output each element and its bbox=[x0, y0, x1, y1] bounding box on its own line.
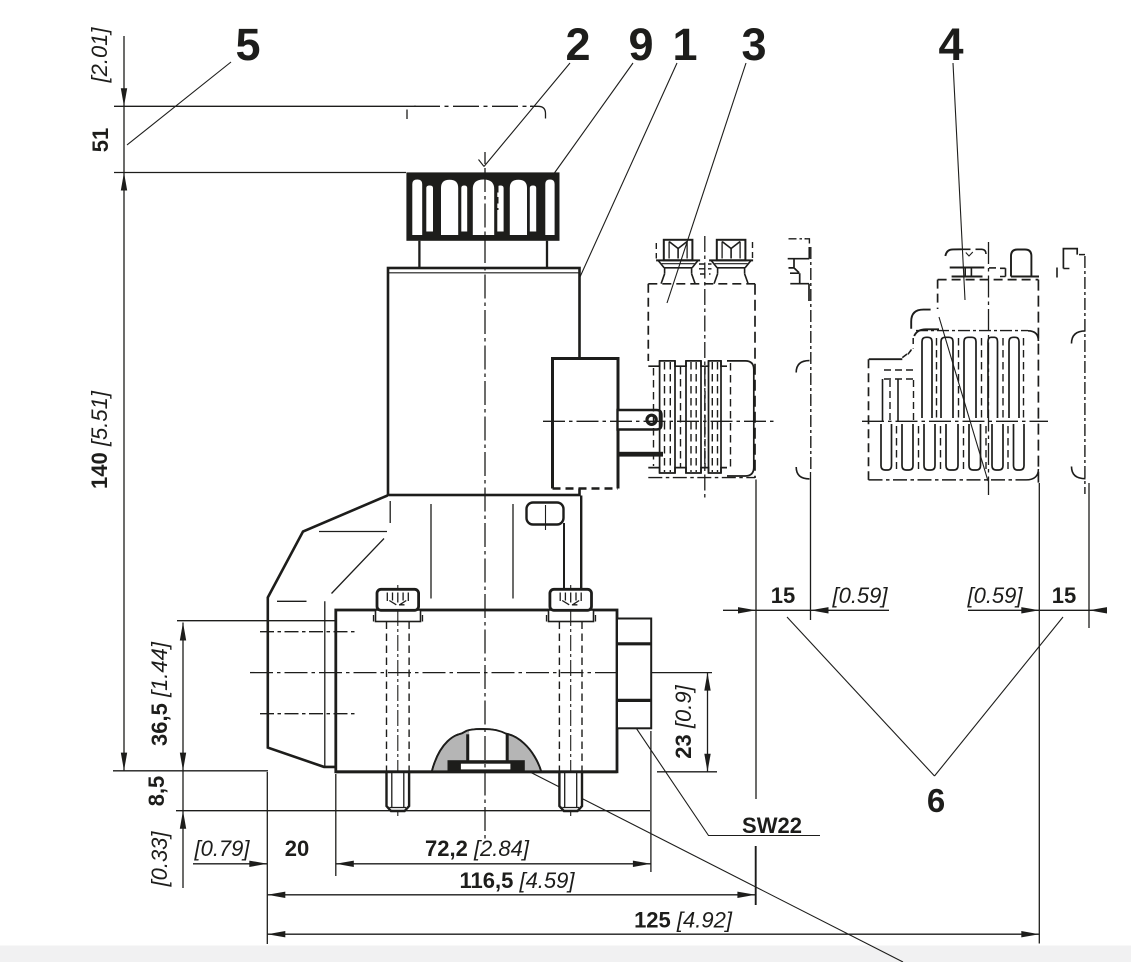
leader 6 right bbox=[935, 617, 1064, 776]
svg-text:[2.01]: [2.01] bbox=[87, 27, 112, 84]
knob white arch slots bbox=[412, 180, 554, 236]
leader 6 left bbox=[787, 617, 935, 776]
item4 left edge dashed bbox=[868, 359, 870, 480]
svg-text:2: 2 bbox=[565, 19, 590, 70]
yoke short edge bbox=[389, 501, 391, 523]
dome black band bbox=[448, 760, 525, 771]
arrow 51 top bbox=[121, 88, 127, 106]
svg-text:3: 3 bbox=[741, 19, 766, 70]
leader 3 bbox=[667, 63, 746, 303]
manual override dome (grey) bbox=[432, 729, 541, 771]
arrow 125 right bbox=[1021, 931, 1039, 937]
pin hole ring bbox=[647, 415, 656, 424]
dome white slot bbox=[469, 730, 506, 760]
knob neck bbox=[419, 241, 547, 268]
dim line right pair bbox=[968, 609, 1103, 611]
clamp tab on leg bbox=[527, 503, 564, 525]
dome band white notch bbox=[461, 764, 511, 770]
item4 body right edge dash bbox=[1037, 280, 1039, 484]
svg-text:116,5 [4.59]: 116,5 [4.59] bbox=[460, 868, 576, 893]
extension line top of stroke (y=106) bbox=[114, 105, 416, 107]
bolt hidden shaft bbox=[387, 622, 410, 772]
leader from manual override to bottom right bbox=[529, 772, 903, 962]
extension line base plane (y=810.7) bbox=[176, 810, 650, 812]
item4 bottom dash-dot bbox=[869, 479, 1027, 481]
item3 body top dashed bbox=[648, 283, 755, 285]
item3 hidden dashes between screws bbox=[699, 264, 712, 274]
item3 gland rib top profile bbox=[648, 361, 727, 366]
phantom tick bbox=[406, 110, 408, 120]
svg-text:140 [5.51]: 140 [5.51] bbox=[87, 390, 112, 489]
svg-text:23 [0.9]: 23 [0.9] bbox=[671, 684, 696, 758]
item4 body top dashed bbox=[938, 279, 1039, 281]
frag arc bottom bbox=[1072, 467, 1086, 479]
item4 hood corner upper bbox=[911, 310, 930, 329]
arrow 116.5 left bbox=[267, 892, 285, 898]
arrow 72.2 right bbox=[633, 861, 651, 867]
extension line body bottom (y=770.8) bbox=[113, 770, 268, 772]
knob hidden dashes bbox=[469, 186, 497, 210]
dim line 116.5 bbox=[267, 894, 755, 896]
item4 upper fins bbox=[922, 337, 932, 418]
knurled knob item 2 bbox=[406, 172, 559, 267]
port axis lower bbox=[260, 713, 355, 715]
aux corner dash bbox=[805, 239, 810, 244]
yoke inner line y=531.5 bbox=[319, 531, 387, 533]
svg-text:72,2 [2.84]: 72,2 [2.84] bbox=[425, 836, 530, 861]
arrow 140 bottom bbox=[121, 753, 127, 771]
item3 rib hidden dashed verticals bbox=[654, 362, 731, 472]
item4 screw hidden dashes mid bbox=[989, 267, 996, 269]
item4 fin corner right bbox=[1028, 331, 1038, 341]
svg-text:[0.59]: [0.59] bbox=[966, 583, 1023, 608]
item3 body left edge dashed bbox=[647, 284, 649, 361]
item4 body left edge dash bbox=[937, 280, 939, 309]
phantom stroke line dash-dot bbox=[414, 105, 532, 107]
valve body bbox=[336, 610, 617, 772]
item3 rib verticals bbox=[660, 361, 721, 473]
arrow 0.33 up bbox=[180, 811, 186, 829]
item3 horizontal centerline bbox=[543, 420, 778, 422]
leader 2 bbox=[479, 63, 571, 167]
item4 cable entry dashed box bbox=[884, 369, 915, 371]
item4 lower fin hidden dashes bbox=[897, 426, 1009, 469]
bolt flange bbox=[376, 610, 421, 622]
svg-text:51: 51 bbox=[88, 128, 113, 152]
extension line x=335.8 bbox=[335, 774, 337, 876]
bolt thread end bbox=[387, 772, 410, 811]
right mounting bolt bbox=[547, 585, 596, 816]
item4 upper fin hidden dashes bbox=[937, 338, 1024, 418]
svg-text:SW22: SW22 bbox=[742, 813, 802, 838]
svg-text:15: 15 bbox=[771, 583, 795, 608]
arrow 36.5 bottom bbox=[180, 753, 186, 771]
aux centerline vertical bbox=[810, 247, 812, 470]
svg-text:9: 9 bbox=[628, 19, 653, 70]
arrow 51 bottom / 140 top bbox=[121, 173, 127, 191]
dim line 125 bbox=[267, 933, 1039, 935]
svg-text:[0.33]: [0.33] bbox=[147, 831, 172, 888]
item3 centerline vertical bbox=[704, 236, 706, 500]
port axis upper bbox=[260, 631, 355, 633]
arrow 15L right bbox=[811, 607, 829, 613]
yoke inner diagonal bbox=[332, 539, 385, 594]
item4 ledge diagonal dash bbox=[902, 351, 911, 357]
connector block bbox=[553, 359, 619, 489]
extension line x=650.9 bbox=[650, 731, 652, 872]
item4 horizontal centerline bbox=[862, 420, 1048, 422]
body centerline horizontal main bbox=[250, 672, 640, 674]
dimension line 51/140 vertical bbox=[123, 36, 125, 771]
extension x=1089 bbox=[1088, 483, 1090, 628]
pin tab with hole bbox=[618, 410, 662, 430]
svg-text:36,5 [1.44]: 36,5 [1.44] bbox=[147, 641, 172, 746]
bolt head bbox=[377, 589, 419, 610]
extension line port axis (y=620.7) bbox=[177, 620, 377, 622]
port block right SW22 bbox=[617, 619, 651, 729]
item4 screw right dome bbox=[1011, 250, 1031, 277]
svg-text:20: 20 bbox=[285, 836, 309, 861]
dome outline restroke bbox=[432, 729, 541, 771]
body bottom edge redraw bbox=[336, 770, 617, 773]
mounting yoke under coil bbox=[268, 496, 581, 767]
arrow 0.79 right bbox=[249, 861, 267, 867]
extension line knob top (y=172.5) bbox=[114, 172, 406, 174]
item4 hood corner lower bbox=[914, 329, 939, 336]
item3 hidden side dashes bbox=[656, 242, 752, 259]
extension x=756 upper bbox=[755, 480, 757, 800]
main vertical centerline bbox=[484, 152, 486, 164]
left mounting bolt bbox=[374, 585, 423, 816]
item3 screw right bbox=[709, 240, 753, 284]
extension x=756 lower bbox=[755, 846, 757, 905]
bolt centerline bbox=[397, 585, 399, 816]
arrow 125 left bbox=[267, 931, 285, 937]
extension line x=1039.3 bbox=[1038, 483, 1040, 944]
yoke inner vertical bbox=[324, 601, 326, 766]
aux dash-dot top bbox=[789, 238, 807, 240]
aux arc top bbox=[796, 361, 809, 373]
frag centerline vertical bbox=[1084, 256, 1086, 494]
item3 body right edge dashed bbox=[754, 284, 756, 478]
svg-text:125 [4.92]: 125 [4.92] bbox=[634, 908, 733, 933]
extension line y=672.6 right bbox=[652, 672, 712, 674]
svg-text:8,5: 8,5 bbox=[144, 776, 169, 807]
item4 lower fins bbox=[881, 424, 892, 470]
item3 gland rib bottom profile bbox=[648, 468, 727, 473]
arrow 116.5 right bbox=[737, 892, 755, 898]
coil top inner line bbox=[389, 272, 579, 274]
extension line x=267.3 bbox=[266, 772, 268, 944]
arrow 36.5 top bbox=[180, 623, 186, 641]
dim line 23 bbox=[707, 673, 709, 772]
dim line 0.79 bbox=[193, 863, 267, 865]
item4 ledge bbox=[869, 358, 903, 360]
yoke inner line y=601 bbox=[277, 600, 307, 602]
extension line x=755.4 bbox=[754, 846, 756, 905]
svg-text:4: 4 bbox=[938, 19, 963, 70]
aux arc bottom bbox=[796, 467, 809, 479]
arrow 23 bottom bbox=[704, 754, 710, 772]
item4 screw left dome bbox=[945, 249, 961, 256]
arrow 15R right bbox=[1089, 607, 1107, 613]
extension x=810.5 bbox=[810, 472, 812, 620]
leader 5 bbox=[127, 62, 231, 145]
item4 vertical centerline bbox=[988, 242, 990, 495]
item3 bottom dash-dot bbox=[648, 477, 755, 479]
svg-text:15: 15 bbox=[1052, 583, 1076, 608]
yoke outline bbox=[268, 496, 388, 767]
yoke right leg bbox=[580, 496, 582, 611]
svg-text:6: 6 bbox=[927, 782, 945, 819]
svg-text:[0.59]: [0.59] bbox=[831, 583, 888, 608]
coil body item 1 bbox=[388, 268, 580, 495]
item4 right small dash bbox=[1056, 268, 1058, 278]
svg-text:1: 1 bbox=[672, 19, 697, 70]
dim line left pair bbox=[723, 609, 889, 611]
dim line 72.2 bbox=[336, 863, 651, 865]
item4 screw left base bbox=[950, 267, 985, 269]
item4 upper fin zone top line bbox=[916, 330, 1028, 332]
svg-text:5: 5 bbox=[235, 19, 260, 70]
SW22 leader bbox=[628, 716, 820, 836]
yoke window verticals bbox=[431, 504, 513, 599]
leader 1 bbox=[565, 63, 677, 310]
dimension line 36.5/8.5 vertical bbox=[182, 623, 184, 889]
leader 9 bbox=[553, 63, 633, 175]
block bottom dashed bbox=[553, 487, 619, 490]
arrow 23 top bbox=[704, 673, 710, 691]
frag top step bbox=[1063, 249, 1077, 269]
phantom hook bbox=[530, 106, 546, 118]
svg-text:[0.79]: [0.79] bbox=[193, 836, 250, 861]
arrow 72.2 left bbox=[336, 861, 354, 867]
item4 inner diagonal bbox=[939, 317, 988, 481]
dome slot side bars bbox=[466, 734, 469, 760]
item4 bottom right corner bbox=[1026, 469, 1038, 480]
footer strip bbox=[0, 946, 1131, 962]
frag arc top bbox=[1072, 331, 1086, 344]
arrow 15R left bbox=[1021, 607, 1039, 613]
item3 screw left bbox=[656, 240, 700, 284]
extension line y=771.8 right bbox=[657, 771, 717, 773]
item4 screws base line bbox=[1011, 276, 1039, 278]
item3 smooth cap right bbox=[727, 361, 754, 476]
lower pin bar bbox=[618, 452, 664, 457]
arrow 15L left bbox=[738, 607, 756, 613]
aux solid profile bbox=[788, 247, 810, 301]
item4 hood dashes bbox=[912, 338, 914, 349]
leader 4 bbox=[953, 63, 973, 300]
